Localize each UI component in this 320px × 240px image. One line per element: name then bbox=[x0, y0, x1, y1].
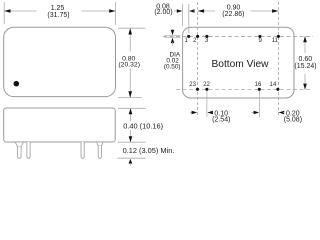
svg-text:(0.50): (0.50) bbox=[164, 63, 181, 70]
dimension 0.40 extension line top bbox=[118, 107, 146, 109]
side view pin 4 flare bbox=[97, 142, 103, 146]
pin 11 bbox=[277, 35, 280, 38]
side view pin 3 bbox=[81, 142, 84, 158]
arrowhead up of 0.60 bbox=[303, 36, 307, 42]
pin16 column extension bbox=[259, 91, 261, 118]
arrowhead right of 0.90 bbox=[272, 9, 278, 13]
svg-text:16: 16 bbox=[255, 82, 262, 88]
pin 22 bbox=[205, 88, 208, 91]
svg-text:0.40 (10.16): 0.40 (10.16) bbox=[123, 121, 163, 130]
pin 1 index dot bbox=[13, 81, 19, 87]
top view body bbox=[4, 27, 116, 96]
dimension 1.25 (31.75) extension line right bbox=[115, 2, 117, 25]
DIA dimension top tick bbox=[165, 34, 181, 36]
pin 2 bbox=[196, 35, 199, 38]
dimension 1.25 (31.75) extension line left bbox=[3, 2, 5, 24]
dimension 0.40 extension line bottom bbox=[118, 141, 146, 143]
top pin row center line bbox=[163, 35, 313, 37]
side view body bbox=[4, 108, 116, 142]
side view pin 2 bbox=[27, 142, 30, 158]
svg-text:23: 23 bbox=[189, 82, 196, 88]
pin11/pin14 column center line bbox=[277, 2, 279, 118]
body edge extension line for 0.08 bbox=[182, 4, 184, 26]
pin dots top row: pin 1 bbox=[187, 35, 190, 38]
svg-text:(2.00): (2.00) bbox=[154, 9, 172, 16]
arrowhead up of 0.12 bbox=[129, 159, 133, 164]
svg-text:(20.32): (20.32) bbox=[118, 62, 140, 69]
dimension 0.12 pin tip extension line bbox=[118, 157, 146, 159]
pin dots bottom row: pin 23 bbox=[196, 88, 199, 91]
arrowhead down of 0.40 bbox=[129, 136, 133, 142]
pin 9 bbox=[258, 35, 261, 38]
bottom pin row center line bbox=[176, 88, 311, 90]
svg-text:22: 22 bbox=[203, 82, 210, 88]
DIA dimension bottom tick bbox=[165, 37, 181, 39]
dimension 0.10 arrows bbox=[190, 112, 193, 114]
arrowhead left of 1.25 bbox=[4, 9, 10, 13]
arrowhead down of 0.80 bbox=[128, 91, 132, 97]
arrowhead right of 1.25 bbox=[109, 9, 115, 13]
dimension 0.80 extension line bottom bbox=[118, 97, 142, 99]
svg-text:11: 11 bbox=[272, 38, 279, 44]
DIA arrow down bbox=[172, 30, 174, 32]
dimension 0.80 extension line top bbox=[118, 27, 146, 29]
side view pin 1 flare bbox=[15, 142, 23, 147]
arrowhead down of 0.60 bbox=[303, 84, 307, 90]
svg-text:14: 14 bbox=[270, 82, 277, 88]
svg-text:Bottom View: Bottom View bbox=[211, 59, 269, 70]
pin2/pin23 column center line bbox=[197, 2, 199, 118]
DIA arrow up bbox=[171, 38, 175, 44]
dimension 0.90 dimension line bbox=[198, 10, 215, 12]
arrowhead left of 0.90 bbox=[198, 9, 204, 13]
svg-text:(5.08): (5.08) bbox=[284, 116, 302, 123]
svg-text:(22.86): (22.86) bbox=[222, 11, 244, 18]
arrowhead up of 0.80 bbox=[128, 28, 132, 34]
side view pin 1 bbox=[18, 147, 22, 159]
dimension 0.08 arrows bbox=[174, 10, 178, 12]
pin1 column extension line for 0.08 bbox=[188, 4, 190, 33]
svg-text:(2.54): (2.54) bbox=[212, 116, 230, 123]
bottom view body bbox=[183, 27, 294, 98]
pin22 column extension bbox=[206, 91, 208, 118]
dimension 0.60 dimension line bbox=[304, 36, 306, 53]
svg-text:1.25: 1.25 bbox=[51, 5, 65, 12]
pin 16 bbox=[258, 88, 261, 91]
pin 3 bbox=[205, 35, 208, 38]
dimension 1.25 (31.75) dimension line bbox=[4, 10, 36, 12]
svg-text:(31.75): (31.75) bbox=[47, 12, 69, 19]
dimension 0.20 arrows bbox=[252, 112, 255, 114]
dimension 0.80 dimension line bbox=[129, 28, 131, 51]
side view pin 4 bbox=[98, 146, 101, 158]
svg-text:0.12 (3.05) Min.: 0.12 (3.05) Min. bbox=[123, 146, 175, 155]
dimension 0.40 dimension line bbox=[130, 108, 132, 121]
arrowhead up of 0.40 bbox=[129, 108, 133, 114]
pin 14 bbox=[276, 88, 279, 91]
svg-text:(15.24): (15.24) bbox=[294, 63, 316, 70]
